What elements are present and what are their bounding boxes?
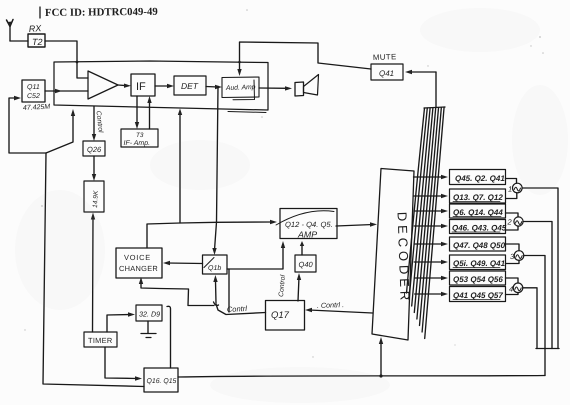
control line bundle top cap: [424, 107, 445, 108]
resistor 14.9K: [84, 181, 104, 212]
svg-text:RX: RX: [28, 23, 42, 34]
svg-text:Q1b: Q1b: [208, 264, 221, 272]
return rail down and left: [544, 349, 546, 376]
wire DET to audio amp: [206, 86, 218, 89]
wire to driver box 2: [414, 195, 445, 197]
wire audio amp to speaker: [259, 87, 287, 89]
op-amp U1 RF amplifier: [88, 71, 118, 99]
wire decoder to Q17: [309, 310, 373, 313]
voice changer box: [116, 248, 162, 278]
svg-text:Q46. Q43. Q45: Q46. Q43. Q45: [452, 224, 507, 233]
wire amp to IF: [118, 84, 127, 87]
junction on bottom rail: [379, 374, 382, 377]
wire motor4 to driver8: [506, 293, 519, 295]
wire motor2 to driver4: [506, 226, 518, 230]
svg-text:MUTE: MUTE: [373, 52, 397, 62]
RF section enclosure: [54, 61, 268, 110]
svg-text:AMP: AMP: [297, 230, 317, 240]
svg-text:Q16. Q15: Q16. Q15: [147, 378, 177, 385]
control bundle line 4: [414, 108, 433, 313]
diode block 32.D9: [136, 305, 162, 321]
wire motor1 to driver2: [506, 193, 517, 199]
wire junction up to enclosure bottom: [46, 114, 73, 153]
svg-text:Q53 Q54 Q56: Q53 Q54 Q56: [453, 275, 503, 284]
ground below 32.D9: [141, 321, 156, 338]
svg-text:Q26: Q26: [87, 145, 102, 154]
control bundle line 6: [420, 108, 439, 326]
IF down to IF amp T3: [136, 96, 138, 124]
IF amplifier T3: [121, 129, 158, 147]
wire Q17 top to Q40 bottom: [298, 277, 299, 301]
svg-text:Q6. Q14. Q44: Q6. Q14. Q44: [453, 208, 503, 217]
motor 4: [513, 283, 523, 293]
wire down to Q16 Q15 top: [167, 306, 171, 368]
motor 3: [514, 251, 524, 261]
svg-text:32. D9: 32. D9: [139, 310, 160, 319]
IF box: [131, 74, 155, 96]
wire motor2 to right rail: [523, 222, 552, 349]
wire timer up to resistor: [92, 218, 95, 332]
oscillator Q11: [22, 80, 45, 102]
svg-text:Contrl: Contrl: [227, 304, 248, 314]
wire amp to decoder: [336, 225, 373, 227]
IF amp T3 up to IF: [149, 101, 151, 129]
svg-text:Q41 Q45 Q57: Q41 Q45 Q57: [453, 291, 503, 300]
wire to driver box 8: [415, 293, 444, 295]
left rail Q11 junction down to Q16 Q15: [43, 153, 144, 387]
wire motor3 to right rail: [524, 256, 545, 349]
driver box Q53.Q54.Q56: [450, 271, 506, 285]
svg-text:Q41: Q41: [379, 69, 394, 78]
svg-text:4: 4: [509, 284, 513, 293]
wire driver5 to motor3: [506, 244, 520, 251]
wire detector node down to Q1b top: [215, 87, 219, 250]
wire into Q11 left: [9, 98, 46, 153]
motor 1: [513, 183, 523, 193]
wire motor1 to right rail: [522, 188, 558, 349]
wire antenna to T2: [10, 40, 28, 42]
wire to driver box 4: [414, 225, 444, 227]
wire timer bottom to Q16 Q15: [105, 347, 137, 379]
control wire enclosure to Q26: [93, 107, 95, 137]
antenna: [7, 20, 14, 42]
wire to driver box 6: [414, 261, 444, 263]
driver box Q41.Q45.Q57: [450, 287, 506, 302]
wire motor3 to driver6: [506, 260, 520, 263]
wire to driver box 7: [414, 277, 444, 279]
svg-text:T2: T2: [32, 37, 43, 47]
svg-text:IF- Amp.: IF- Amp.: [124, 140, 151, 147]
wire driver7 to motor4: [506, 278, 519, 283]
junction hook: [214, 302, 219, 305]
svg-text:T3: T3: [136, 132, 144, 139]
transistor Q26: [83, 141, 105, 156]
wire to driver box 1: [414, 176, 445, 178]
control bundle line 1: [407, 108, 425, 293]
transistor Q40: [295, 255, 316, 272]
wire timer to 32.D9: [107, 315, 130, 333]
FCC ID title: [40, 6, 158, 19]
svg-text:VOICE: VOICE: [124, 253, 151, 262]
wire driver1 to motor1: [506, 179, 517, 184]
audio amplifier box: [222, 77, 259, 100]
control bundle line 2: [409, 108, 427, 300]
driver box Q47.Q48.Q50: [450, 237, 506, 251]
wire bundle feed to Q41: [408, 71, 436, 73]
svg-text:Q11: Q11: [27, 84, 40, 91]
svg-text:47.425M: 47.425M: [23, 104, 51, 112]
wire Q17 to control junction: [216, 304, 266, 315]
svg-text:Q5i. Q49. Q41: Q5i. Q49. Q41: [453, 259, 506, 268]
wire bridge down into audio amp top: [239, 62, 241, 72]
svg-text:CHANGER: CHANGER: [119, 264, 158, 273]
control bundle line 7: [422, 108, 441, 332]
wire IF to DET: [155, 85, 170, 87]
svg-text:Q45. Q2. Q41: Q45. Q2. Q41: [455, 174, 505, 183]
wire T2 to enclosure top / amp input: [45, 41, 77, 62]
motor 2: [514, 217, 523, 226]
svg-text:. Contrl .: . Contrl .: [317, 300, 344, 310]
wire up into decoder bottom: [380, 341, 382, 376]
svg-text:Q12 - Q4. Q5.: Q12 - Q4. Q5.: [285, 220, 333, 229]
driver box Q46.Q43.Q45: [450, 220, 507, 234]
control bundle line 8: [425, 107, 444, 339]
wire motor4 to right rail: [523, 288, 537, 349]
svg-text:2: 2: [507, 218, 513, 227]
wire driver3 to motor2: [506, 213, 519, 217]
svg-text:Aud. Amp: Aud. Amp: [225, 84, 256, 92]
driver box Q51.Q49.Q41: [450, 255, 506, 270]
wire junction up into Q1 bottom: [215, 281, 218, 303]
wire up into enclosure bottom: [179, 113, 181, 223]
svg-text:Q40: Q40: [299, 260, 314, 269]
svg-text:C52: C52: [27, 93, 40, 100]
svg-text:IF: IF: [136, 81, 146, 93]
transistor Q1b: [203, 255, 228, 274]
wire to driver box 5: [414, 243, 444, 245]
decoder box: [372, 169, 414, 341]
mute transistor Q41: [371, 64, 403, 80]
wire Q1b to amp input bottom: [227, 245, 283, 269]
wire Q1b right branch down to control node: [228, 269, 230, 312]
receiver coil T2: [28, 34, 45, 47]
wire top bridge to mute: [240, 42, 372, 69]
speaker LS1: [295, 75, 319, 97]
wire voice changer top to amp left: [147, 222, 273, 248]
battery block Q16 Q15: [144, 368, 178, 392]
right rail cap: [536, 348, 559, 350]
amplifier block Q12 Q4 Q5: [276, 209, 337, 240]
wire to driver box 3: [414, 210, 444, 212]
svg-text:Q13. Q7. Q12: Q13. Q7. Q12: [453, 193, 503, 202]
detector DET: [174, 76, 206, 95]
wire Q11 output to RF amp: [45, 90, 88, 92]
junction node: [217, 86, 220, 89]
wire Q1b to voice changer: [167, 262, 203, 265]
svg-text:TIMER: TIMER: [88, 336, 113, 345]
timer box: [84, 332, 117, 347]
wire Q26 to resistor: [93, 156, 95, 176]
driver box Q6.Q14.Q44: [450, 204, 506, 218]
svg-text:DET: DET: [181, 81, 199, 91]
scan speckles: [24, 9, 544, 357]
wire junction to voice changer bottom: [141, 281, 214, 306]
control bundle line 5: [417, 108, 436, 319]
wire amp bottom to Q40: [301, 246, 303, 255]
driver box Q45.Q2.Q41: [450, 170, 506, 185]
transistor Q17: [266, 301, 305, 331]
svg-text:Q47. Q48 Q50: Q47. Q48 Q50: [453, 241, 506, 250]
svg-text:14.9K: 14.9K: [92, 190, 100, 208]
driver box Q13.Q7.Q12: [450, 189, 506, 203]
svg-text:1: 1: [508, 185, 512, 194]
svg-text:FCC ID: HDTRC049-49: FCC ID: HDTRC049-49: [45, 6, 158, 19]
control bundle line 3: [412, 108, 430, 306]
svg-text:Q17: Q17: [271, 310, 290, 321]
bottom return rail: [178, 376, 545, 378]
